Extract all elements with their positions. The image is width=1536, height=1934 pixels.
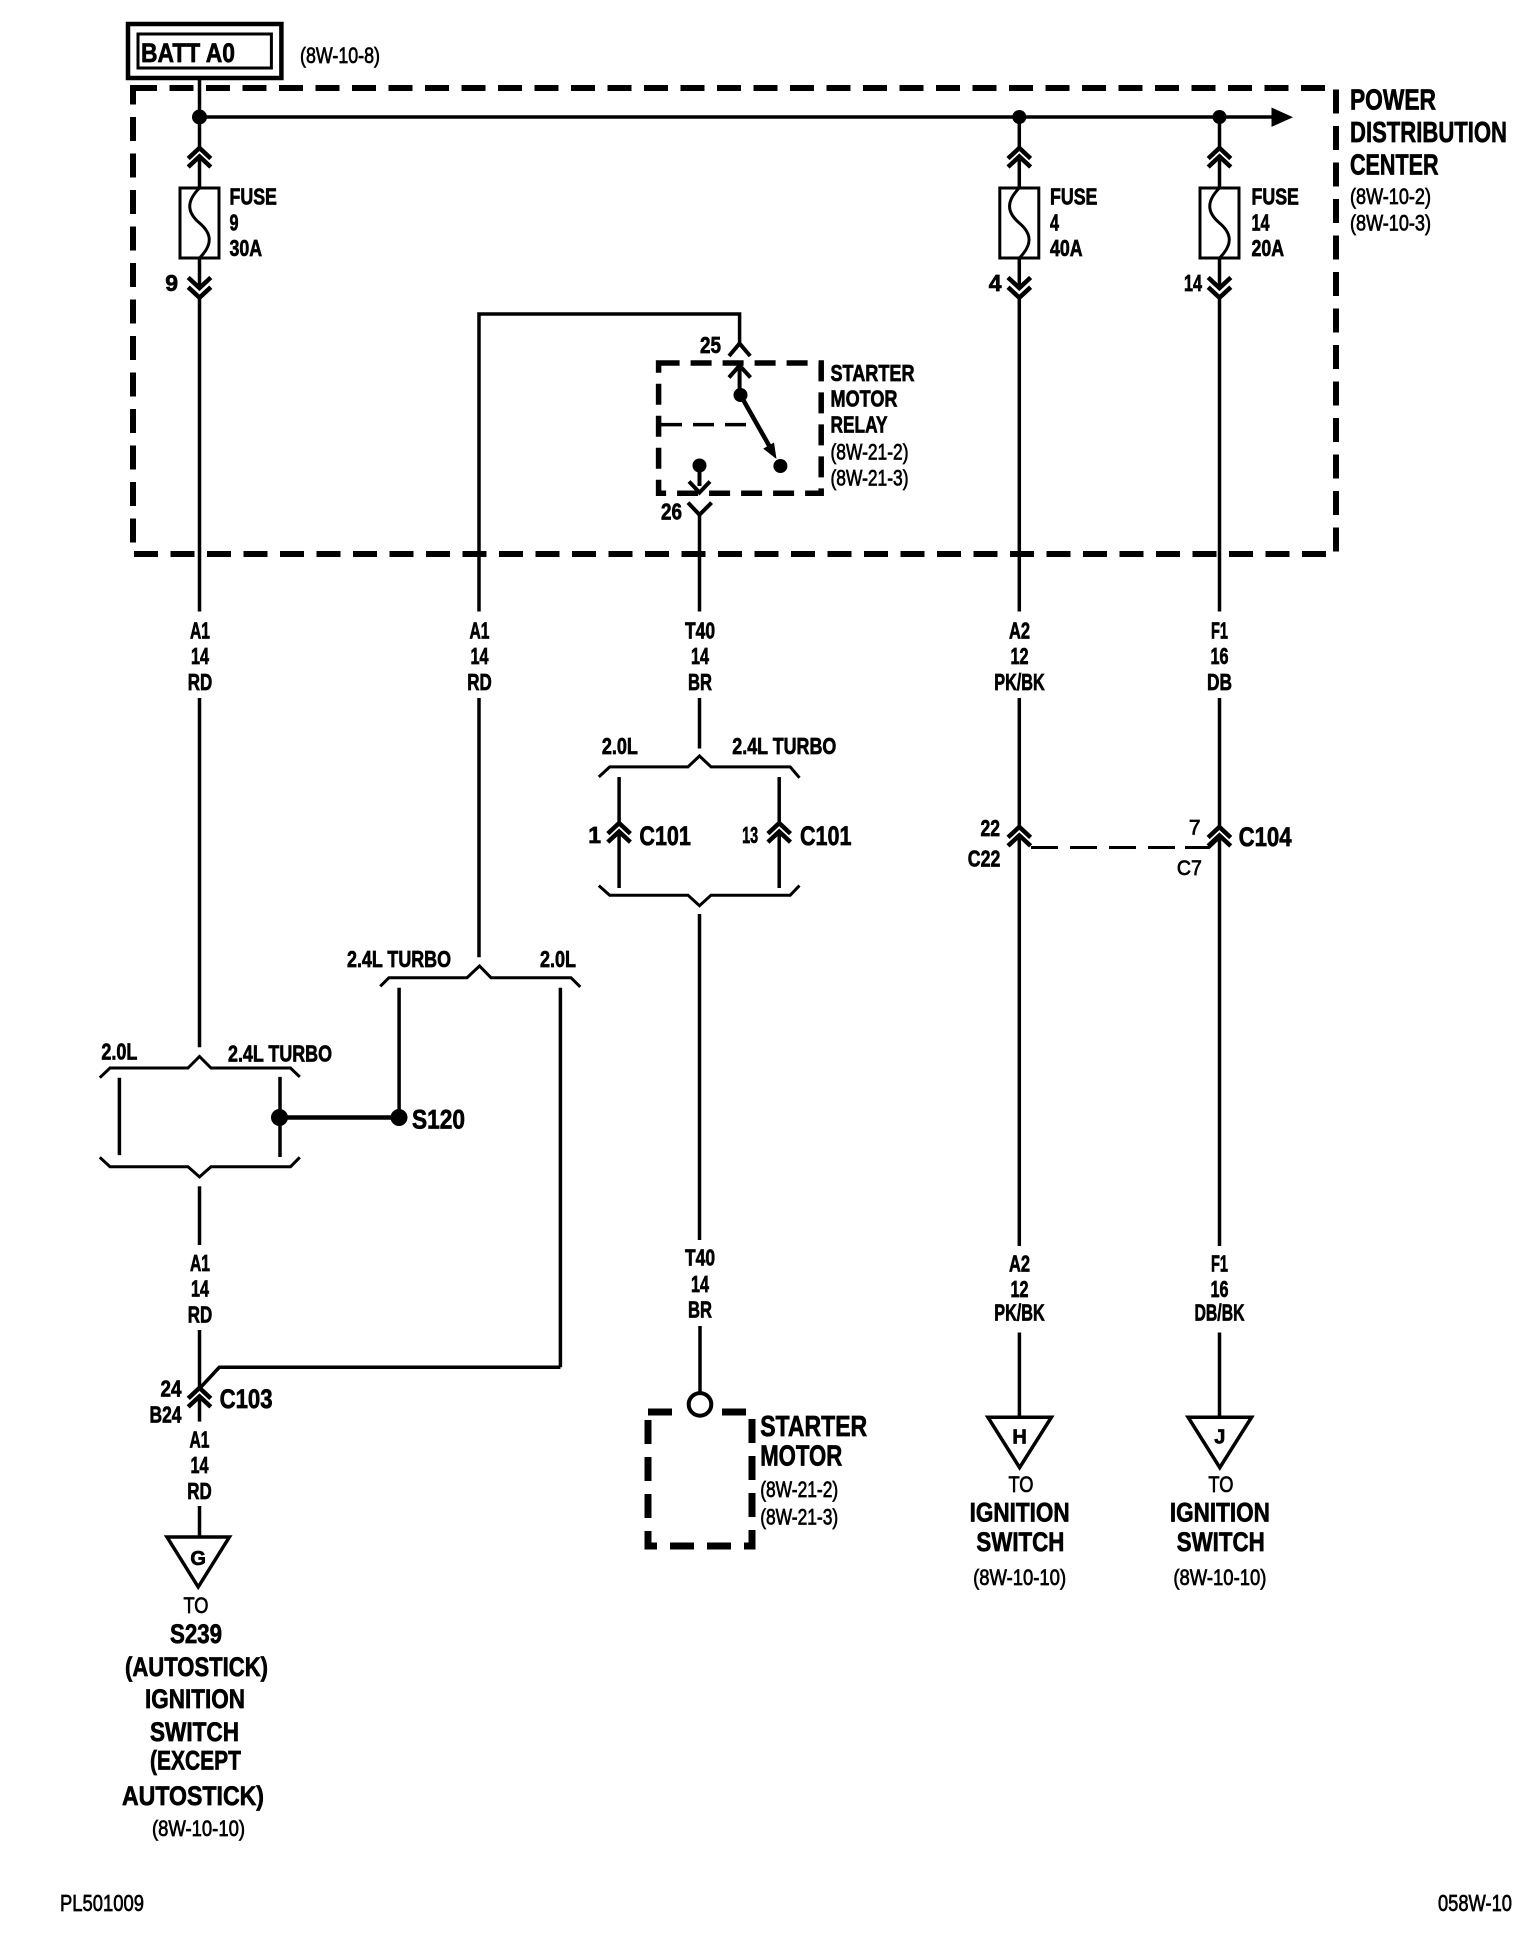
wire chevron to fuse 14 [1218,157,1222,188]
svg-text:(8W-21-2): (8W-21-2) [760,1477,838,1502]
label FUSE 4 40A [1050,183,1097,261]
svg-text:T40: T40 [685,1245,715,1271]
svg-text:IGNITION: IGNITION [145,1684,245,1714]
svg-text:FUSE: FUSE [230,183,277,209]
svg-text:C101: C101 [639,821,691,851]
connector chevron pin 26 [688,503,712,515]
wire C101 2.4L branch lower [777,832,781,888]
Power Distribution Center dashed boundary [133,88,1336,554]
svg-text:12: 12 [1011,1276,1029,1302]
wire fuse 9 to pin chevron [198,258,202,285]
svg-text:13: 13 [742,822,758,848]
svg-text:(8W-21-3): (8W-21-3) [831,466,909,491]
wire 2.0L link to C103 [201,1367,561,1387]
svg-text:PK/BK: PK/BK [994,669,1045,695]
starter motor terminal circle [689,1393,712,1416]
connector chevron pin 25 [729,344,750,357]
svg-text:14: 14 [1184,270,1202,296]
fuse F9 [180,188,219,258]
svg-text:058W-10: 058W-10 [1438,1890,1512,1916]
brace engine split column 2 [380,966,580,987]
wire A2 below C22 [1018,836,1022,1246]
brace C101 upper [599,756,800,778]
svg-text:SWITCH: SWITCH [150,1717,239,1747]
svg-text:14: 14 [1252,209,1270,235]
svg-text:2.4L TURBO: 2.4L TURBO [347,946,451,972]
svg-text:FUSE: FUSE [1050,183,1097,209]
wire F1 to off-page J [1218,1333,1222,1418]
label F1 16 DB [1207,617,1232,695]
splice S120 dot right [391,1109,408,1126]
relay internal divider [661,423,751,427]
off-page connector H triangle [988,1417,1052,1467]
svg-text:A1: A1 [190,1426,210,1452]
svg-text:G: G [190,1548,206,1570]
svg-text:DB/BK: DB/BK [1195,1300,1245,1326]
svg-text:IGNITION: IGNITION [1170,1498,1270,1528]
connector chevrons above fuse 9 [188,148,211,167]
label T40 14 BR [685,617,715,695]
wire fuse 4 to pin chevron [1018,258,1022,285]
svg-text:2.0L: 2.0L [540,946,576,972]
svg-text:B24: B24 [150,1402,182,1428]
svg-text:PL501009: PL501009 [60,1890,144,1916]
svg-text:RD: RD [187,1478,212,1504]
splice S120 dot left [271,1109,288,1126]
wire BATT A0 stub to bus [198,78,202,117]
wire 2.0L branch down [559,988,563,1368]
wire T40 below C101 [698,914,702,1240]
wire F1 to C104 [1218,698,1222,827]
svg-text:9: 9 [230,209,239,235]
wire fuse 14 to pin chevron [1218,258,1222,285]
svg-text:SWITCH: SWITCH [976,1527,1064,1557]
wire T40 to starter motor [698,1326,702,1393]
svg-text:9: 9 [165,270,178,296]
svg-text:(8W-10-3): (8W-10-3) [1350,211,1431,236]
svg-text:(8W-10-10): (8W-10-10) [973,1565,1066,1590]
svg-text:16: 16 [1211,643,1229,669]
label A1 14 RD column 2 [467,617,492,695]
svg-text:2.0L: 2.0L [602,733,638,759]
wire C101 2.0L branch upper [617,777,621,823]
relay output contact dot [693,459,707,473]
svg-text:DB: DB [1207,669,1232,695]
wire 2.0L inner branch [118,1078,122,1155]
svg-text:2.0L: 2.0L [101,1039,137,1065]
brace engine split left upper [100,1057,300,1078]
svg-text:4: 4 [989,270,1002,296]
svg-text:TO: TO [1009,1472,1034,1497]
connector chevrons above fuse 14 [1208,148,1231,167]
svg-text:FUSE: FUSE [1252,183,1299,209]
label FUSE 14 20A [1252,183,1299,261]
svg-text:(8W-10-10): (8W-10-10) [152,1816,245,1841]
wire S120 link [280,1115,400,1120]
label STARTER MOTOR [760,1411,867,1473]
relay arm arrow up at pin 25 [729,366,751,392]
relay output arrow down to pin 26 [689,471,710,493]
svg-text:2.4L TURBO: 2.4L TURBO [228,1041,332,1067]
wire chevron to fuse 4 [1018,157,1022,188]
wire C101 2.4L branch upper [777,777,781,823]
wire T40 pin26 through PDC border [698,515,702,612]
node junction dot at fuse 4 [1012,110,1026,124]
connector C101 chevrons 2.4L turbo [768,823,791,842]
wire A2 to C22 [1018,698,1022,827]
svg-text:RELAY: RELAY [831,411,888,437]
wire 2.4L turbo inner branch [278,1077,282,1157]
svg-text:C101: C101 [800,821,852,851]
svg-text:STARTER: STARTER [831,360,915,386]
svg-text:14: 14 [191,1452,209,1478]
svg-text:A2: A2 [1009,1251,1030,1277]
svg-text:F1: F1 [1211,1251,1228,1277]
label A1 14 RD second [188,1250,213,1327]
motor M1 starter motor dashed box [648,1412,752,1546]
connector chevrons below fuse 4 [1008,278,1031,298]
svg-text:MOTOR: MOTOR [760,1441,842,1473]
off-page connector G triangle [167,1537,229,1587]
wire below C103 [198,1397,202,1422]
svg-text:(8W-10-2): (8W-10-2) [1350,184,1431,209]
svg-text:A1: A1 [190,1250,210,1276]
svg-text:2.4L TURBO: 2.4L TURBO [732,733,836,759]
svg-text:(AUTOSTICK): (AUTOSTICK) [125,1652,268,1682]
svg-text:POWER: POWER [1350,85,1436,117]
svg-text:14: 14 [691,643,709,669]
node BATT A0 feed box [128,24,281,78]
relay K starter motor relay dashed box [659,363,822,493]
fuse F14 [1200,188,1239,258]
svg-text:14: 14 [471,643,489,669]
svg-text:1: 1 [588,822,601,848]
wire A1 column 2 to brace [477,698,481,957]
svg-text:BR: BR [688,669,712,695]
svg-text:STARTER: STARTER [760,1411,867,1443]
wire F1 below C104 [1218,836,1222,1246]
label A2 12 PK/BK second [994,1251,1045,1326]
svg-text:(8W-10-8): (8W-10-8) [300,43,380,68]
label A1 14 RD [188,617,213,695]
svg-text:SWITCH: SWITCH [1177,1527,1265,1557]
wire A2 inside PDC down through border [1018,298,1022,612]
wire bus to fuse 14 [1218,117,1222,148]
svg-text:S120: S120 [412,1105,465,1135]
connector chevrons below fuse 9 [188,278,211,298]
svg-text:24: 24 [161,1376,182,1402]
wire A1 below left assembly [198,1186,202,1245]
svg-text:BR: BR [688,1296,712,1322]
label STARTER MOTOR RELAY [831,360,915,438]
svg-text:RD: RD [467,669,492,695]
wire A1 to engine option brace [198,698,202,1047]
svg-text:J: J [1214,1427,1225,1449]
svg-text:C103: C103 [220,1384,273,1414]
svg-text:(8W-21-3): (8W-21-3) [760,1505,838,1530]
wire A1 to C103 [198,1330,202,1387]
svg-text:(8W-10-10): (8W-10-10) [1173,1565,1266,1590]
wire chevron to fuse 9 [198,157,202,188]
svg-text:H: H [1012,1427,1026,1449]
svg-text:22: 22 [981,815,1001,841]
svg-text:(8W-21-2): (8W-21-2) [831,440,909,465]
relay movable contact arm with arrowhead [743,400,777,460]
connector chevrons above fuse 4 [1008,148,1031,167]
svg-text:CENTER: CENTER [1350,150,1439,182]
svg-text:25: 25 [700,332,721,358]
svg-text:S239: S239 [170,1619,222,1649]
label A1 14 RD third [187,1426,212,1504]
wire bus to fuse 4 [1018,117,1022,148]
brace engine split left lower [100,1157,300,1177]
svg-text:BATT A0: BATT A0 [141,38,235,68]
svg-text:RD: RD [188,1301,213,1327]
off-page connector J triangle [1188,1417,1252,1467]
svg-text:TO: TO [184,1593,209,1618]
svg-text:C104: C104 [1239,822,1292,852]
relay contact dot lower right [773,459,787,473]
connector C101 chevrons 2.0L [608,823,631,842]
svg-text:12: 12 [1011,643,1029,669]
svg-text:14: 14 [191,1276,209,1302]
svg-text:40A: 40A [1050,235,1083,261]
svg-text:PK/BK: PK/BK [994,1300,1045,1326]
svg-text:C22: C22 [968,846,1001,872]
wire 2.4L turbo branch to S120 [397,988,401,1110]
svg-text:TO: TO [1208,1472,1233,1497]
connector C103 chevrons [188,1388,211,1407]
fuse F4 [1000,188,1039,258]
wire C101 2.0L branch lower [617,832,621,888]
svg-text:AUTOSTICK): AUTOSTICK) [122,1781,264,1811]
svg-text:30A: 30A [230,235,263,261]
label F1 16 DB/BK second [1195,1251,1245,1326]
svg-text:16: 16 [1211,1276,1229,1302]
svg-text:A2: A2 [1009,617,1030,643]
svg-text:IGNITION: IGNITION [970,1498,1070,1528]
svg-text:14: 14 [691,1271,709,1297]
wire F1 inside PDC down through border [1218,298,1222,612]
wire A2 to off-page H [1018,1333,1022,1418]
svg-text:14: 14 [191,643,209,669]
label FUSE 9 30A [230,183,277,261]
svg-text:MOTOR: MOTOR [831,386,898,412]
svg-text:4: 4 [1050,209,1059,235]
svg-text:T40: T40 [685,617,715,643]
svg-text:RD: RD [188,669,213,695]
wire main bus A0 with arrow [200,108,1294,127]
brace C101 lower [599,886,800,906]
connector chevrons below fuse 14 [1208,278,1231,298]
svg-text:20A: 20A [1252,235,1285,261]
svg-text:(EXCEPT: (EXCEPT [150,1746,241,1776]
label A2 12 PK/BK [994,617,1045,695]
wire dashed connector link C22 to C7 [1031,846,1185,849]
connector C22 chevrons [1008,827,1031,846]
svg-text:DISTRIBUTION: DISTRIBUTION [1350,117,1507,149]
svg-text:C7: C7 [1177,857,1202,880]
svg-text:A1: A1 [470,617,490,643]
connector C104 chevrons [1208,827,1231,846]
svg-text:A1: A1 [190,617,210,643]
wire A1 inside PDC down through border [198,298,202,612]
wire A1 to off-page G [198,1506,202,1537]
relay common dot [734,388,748,402]
svg-text:7: 7 [1189,816,1201,839]
svg-text:F1: F1 [1211,617,1228,643]
label POWER DISTRIBUTION CENTER [1350,85,1507,182]
svg-text:26: 26 [661,499,682,525]
label T40 14 BR second [685,1245,715,1323]
wire bus to fuse 9 [198,117,202,148]
wire T40 to C101 brace [698,698,702,749]
node junction dot at fuse 14 [1213,110,1227,124]
wire elbow feed to relay pin 25 [479,314,740,612]
node junction dot at fuse 9 [192,110,207,125]
